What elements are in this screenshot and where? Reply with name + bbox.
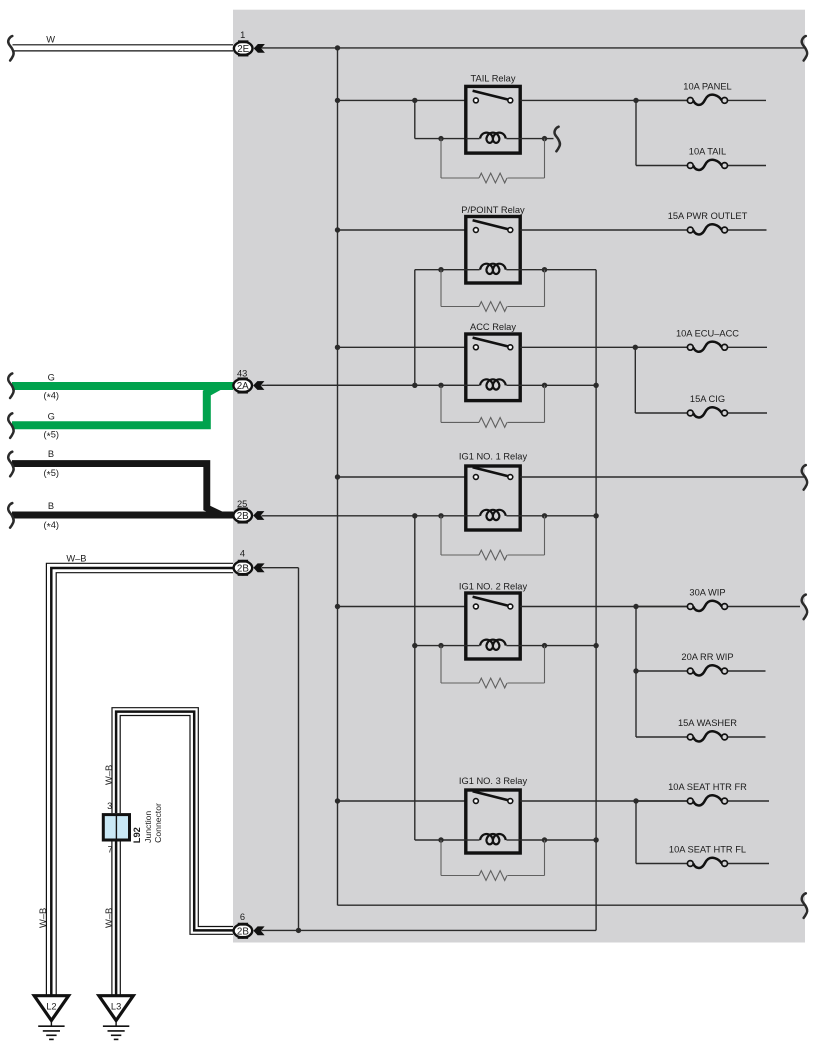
connector 2E pin 1 <box>234 42 253 55</box>
node <box>335 345 340 350</box>
wire ACC switch feed <box>338 346 466 348</box>
svg-text:1: 1 <box>240 30 245 40</box>
wire NO2 coil line <box>415 645 466 647</box>
wire main left bus <box>337 48 339 905</box>
wire TAIL switch feed <box>338 99 466 101</box>
fuse 10A SEAT HTR FR <box>636 800 687 802</box>
break TAIL coil <box>555 127 560 152</box>
svg-text:L2: L2 <box>46 1001 56 1011</box>
wire ground return to 2B(6) <box>262 929 597 931</box>
svg-text:2B: 2B <box>237 563 249 574</box>
ground L2 <box>34 996 68 1021</box>
svg-text:30A WIP: 30A WIP <box>689 588 725 598</box>
wire G (*4) <box>12 382 233 390</box>
node <box>412 383 417 388</box>
break left G5 <box>8 413 13 438</box>
svg-text:7: 7 <box>108 845 113 855</box>
break right NO1 <box>802 465 807 490</box>
svg-text:Junction: Junction <box>143 811 153 843</box>
fuse 10A PANEL <box>636 99 687 101</box>
node <box>593 643 598 648</box>
node <box>296 928 301 933</box>
svg-text:IG1 NO. 3 Relay: IG1 NO. 3 Relay <box>459 776 528 786</box>
svg-text:15A WASHER: 15A WASHER <box>678 718 737 728</box>
wire NO2 switch feed <box>338 606 466 608</box>
node bus D join <box>593 383 598 388</box>
node <box>438 643 443 648</box>
wire ACC coil right <box>520 384 596 386</box>
ground L3 <box>99 996 133 1021</box>
wire NO1 coil line from 2B <box>262 515 466 517</box>
junction connector L92 <box>103 815 129 840</box>
break left G4 <box>8 373 13 398</box>
wire ACC coil line from 2A <box>267 384 466 386</box>
svg-text:10A ECU–ACC: 10A ECU–ACC <box>676 329 739 339</box>
svg-text:2A: 2A <box>237 381 249 392</box>
node <box>633 604 638 609</box>
wire P/POINT switch feed <box>338 229 466 231</box>
node <box>438 513 443 518</box>
wire bottom bus to break <box>338 904 806 906</box>
wire NO1 switch out to break <box>520 476 805 478</box>
node <box>438 383 443 388</box>
wire bus D (coil ground) <box>595 270 597 931</box>
svg-text:TAIL Relay: TAIL Relay <box>471 74 516 84</box>
svg-text:Connector: Connector <box>153 803 163 843</box>
node <box>438 267 443 272</box>
wire fuse branch <box>635 100 637 165</box>
wire fuse branch <box>634 347 636 413</box>
svg-text:IG1 NO. 2 Relay: IG1 NO. 2 Relay <box>459 581 528 591</box>
node top bus junction <box>335 45 340 50</box>
wire P/POINT coil right <box>520 269 596 271</box>
svg-text:6: 6 <box>240 912 245 922</box>
wire from 2A <box>262 384 466 386</box>
svg-text:25: 25 <box>237 499 247 509</box>
svg-text:L3: L3 <box>111 1001 121 1011</box>
node <box>335 474 340 479</box>
fuse 10A TAIL <box>636 165 687 167</box>
fuse 15A CIG <box>635 412 687 414</box>
svg-text:G: G <box>48 412 55 422</box>
svg-text:10A SEAT HTR FL: 10A SEAT HTR FL <box>669 845 746 855</box>
svg-text:10A PANEL: 10A PANEL <box>683 82 731 92</box>
svg-text:W–B: W–B <box>104 765 114 785</box>
fuse 10A ECU–ACC <box>635 346 687 348</box>
wire bus C (IG1 coil feed) <box>414 516 416 840</box>
connector 2B pin 6 <box>234 924 253 937</box>
svg-text:15A PWR OUTLET: 15A PWR OUTLET <box>668 211 748 221</box>
resistor IG1 NO.2 relay <box>440 646 442 683</box>
svg-text:IG1 NO. 1 Relay: IG1 NO. 1 Relay <box>459 451 528 461</box>
node <box>633 668 638 673</box>
node <box>542 383 547 388</box>
wire tap to TAIL coil <box>414 100 416 138</box>
connector 2B pin 25 <box>233 509 252 522</box>
wire from 2E to right edge <box>262 47 806 49</box>
node <box>542 136 547 141</box>
wire TAIL coil out <box>520 138 553 140</box>
node <box>633 798 638 803</box>
break left B5 <box>8 452 13 477</box>
wire W (double line) <box>13 44 234 46</box>
fuse 20A RR WIP <box>636 670 687 672</box>
node <box>542 513 547 518</box>
svg-text:2B: 2B <box>237 926 249 937</box>
svg-text:B: B <box>48 449 54 459</box>
node <box>593 513 598 518</box>
node <box>335 98 340 103</box>
node <box>542 643 547 648</box>
node <box>593 837 598 842</box>
wire bus B (coil feed P/POINT-ACC) <box>414 270 416 386</box>
svg-text:2B: 2B <box>237 511 249 522</box>
svg-text:20A RR WIP: 20A RR WIP <box>681 652 733 662</box>
resistor ACC relay <box>440 385 442 422</box>
node <box>335 798 340 803</box>
svg-text:L92: L92 <box>132 827 142 843</box>
wire NO3 coil right <box>520 839 596 841</box>
fuse 30A WIP <box>636 606 687 608</box>
wire NO3 coil line <box>415 839 466 841</box>
node <box>542 267 547 272</box>
wire W-B to ground L2 (triple line) <box>46 563 233 995</box>
wire NO3 switch out <box>520 800 687 802</box>
svg-text:W: W <box>46 34 55 44</box>
svg-text:15A CIG: 15A CIG <box>690 394 725 404</box>
svg-text:W–B: W–B <box>104 908 114 928</box>
node <box>335 604 340 609</box>
connector 2A pin 43 <box>233 379 252 392</box>
resistor P/POINT relay <box>440 270 442 307</box>
break right bottom <box>802 893 807 918</box>
svg-text:3: 3 <box>107 801 112 811</box>
wire B (*4) <box>12 512 233 519</box>
svg-text:43: 43 <box>237 368 247 378</box>
wire NO1 switch feed <box>338 476 466 478</box>
node fuse feed <box>633 98 638 103</box>
svg-text:W–B: W–B <box>66 553 86 563</box>
break right WIP <box>802 595 807 620</box>
break right top <box>802 36 807 61</box>
node <box>412 513 417 518</box>
node <box>438 136 443 141</box>
wire fuse branch <box>635 607 637 738</box>
node <box>412 643 417 648</box>
node <box>438 837 443 842</box>
node <box>335 227 340 232</box>
svg-text:G: G <box>48 373 55 383</box>
svg-text:P/POINT Relay: P/POINT Relay <box>461 205 525 215</box>
wire NO2 coil right <box>520 645 596 647</box>
wire W-B via junction connector (triple line) <box>112 708 233 927</box>
resistor IG1 NO.3 relay <box>440 840 442 876</box>
fuse 15A PWR OUTLET <box>520 229 687 231</box>
wire P/POINT coil left <box>415 269 466 271</box>
resistor TAIL relay <box>440 139 442 178</box>
wire W-B below L92 <box>111 842 113 996</box>
svg-text:B: B <box>48 501 54 511</box>
wire NO1 coil right <box>520 515 596 517</box>
node <box>542 837 547 842</box>
svg-text:ACC Relay: ACC Relay <box>470 322 516 332</box>
wire G (*5) <box>12 386 233 425</box>
svg-text:10A SEAT HTR FR: 10A SEAT HTR FR <box>668 782 747 792</box>
connector 2B pin 4 <box>234 561 253 574</box>
wire 2B(4) drop <box>262 567 299 569</box>
node <box>633 345 638 350</box>
fuse 10A SEAT HTR FL <box>636 863 687 865</box>
wire NO3 switch feed <box>338 800 466 802</box>
node tap <box>412 98 417 103</box>
resistor IG1 NO.1 relay <box>440 516 442 555</box>
svg-text:10A TAIL: 10A TAIL <box>689 147 726 157</box>
svg-text:W–B: W–B <box>38 908 48 928</box>
wire ACC switch out <box>520 346 687 348</box>
wire TAIL switch out <box>520 99 687 101</box>
wire B (*5) <box>12 464 233 515</box>
wire NO2 switch out <box>520 606 687 608</box>
junction block panel <box>233 10 805 943</box>
svg-text:2E: 2E <box>237 44 249 55</box>
wire fuse branch <box>635 801 637 864</box>
fuse 15A WASHER <box>636 736 687 738</box>
break left B4 <box>8 503 13 528</box>
svg-text:4: 4 <box>240 549 245 559</box>
break left W <box>8 36 13 61</box>
